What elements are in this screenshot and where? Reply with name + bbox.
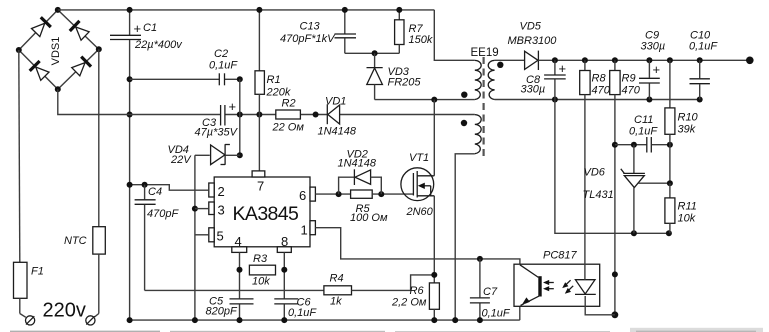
- capacitor C10: [689, 30, 718, 100]
- transformer polarity dot aux: [461, 120, 467, 126]
- svg-text:+: +: [229, 99, 237, 114]
- wire HV top rail: [58, 9, 435, 11]
- capacitor C9: [639, 30, 665, 100]
- transformer EE19 primary winding: [475, 60, 481, 99]
- wire pin7 supply: [258, 115, 260, 172]
- wire primary ground rail: [130, 319, 520, 321]
- svg-text:330µ: 330µ: [641, 41, 666, 53]
- transformer secondary winding: [488, 60, 494, 99]
- node R1/pin7 branch on VCC line: [256, 112, 262, 118]
- resistor R1: [255, 7, 291, 115]
- terminal input left: [26, 316, 35, 325]
- wire pin5: [195, 234, 209, 236]
- svg-text:C4: C4: [148, 186, 162, 198]
- pin 4 of U1: [232, 247, 247, 253]
- svg-text:470pF*1kV: 470pF*1kV: [280, 33, 336, 45]
- wire primary bottom: [375, 99, 475, 101]
- light arrows of PC817: [547, 282, 554, 284]
- svg-text:2N60: 2N60: [406, 206, 434, 218]
- svg-text:7: 7: [257, 179, 264, 194]
- svg-text:F1: F1: [31, 266, 44, 278]
- bridge rectifier VDS1: [16, 7, 102, 92]
- svg-text:0,1uF: 0,1uF: [288, 307, 317, 319]
- wire source to R6: [433, 196, 435, 283]
- wire secondary gnd drop: [555, 100, 669, 234]
- svg-text:EE19: EE19: [471, 47, 499, 59]
- wire R8 to LED anode: [584, 95, 586, 280]
- svg-text:8: 8: [281, 234, 288, 249]
- resistor R9: [610, 60, 641, 96]
- svg-text:22µ*400v: 22µ*400v: [134, 39, 183, 51]
- diode VD3: [367, 50, 422, 99]
- pin 6 of U1: [310, 187, 315, 201]
- svg-text:2: 2: [218, 184, 225, 199]
- diode VD1: [318, 96, 357, 138]
- fuse F1: [14, 50, 44, 317]
- svg-text:VD6: VD6: [584, 167, 606, 179]
- wire VCC line: [130, 114, 221, 116]
- node R2-VD1: [313, 112, 319, 118]
- capacitor C7: [470, 259, 511, 320]
- svg-text:C2: C2: [214, 48, 228, 60]
- wire LED cathode: [585, 296, 615, 315]
- regulator VD6 TL431: [583, 145, 673, 234]
- wire output V+ rail: [538, 59, 749, 61]
- svg-text:+: +: [653, 62, 661, 77]
- resistor R2: [272, 98, 305, 134]
- svg-text:470: 470: [592, 85, 611, 97]
- wire current sense row: [145, 289, 324, 291]
- diode top-left of bridge: [31, 17, 51, 37]
- svg-text:+: +: [559, 61, 567, 76]
- svg-text:R10: R10: [678, 112, 699, 124]
- capacitor C11: [615, 114, 673, 153]
- terminal input right: [86, 316, 95, 325]
- LED of PC817: [575, 280, 595, 294]
- wire output ground: [495, 99, 700, 101]
- svg-text:+: +: [134, 21, 142, 36]
- node C2/VD4 branch on VCC line: [237, 112, 243, 118]
- wire R9 to LED cathode: [614, 95, 616, 315]
- svg-text:22V: 22V: [170, 154, 192, 166]
- svg-text:NTC: NTC: [64, 235, 87, 247]
- transistor VT1 MOSFET: [401, 152, 434, 218]
- svg-text:C13: C13: [300, 21, 321, 33]
- svg-text:R2: R2: [282, 98, 296, 110]
- wire drain: [433, 100, 435, 176]
- diode VD5: [495, 21, 558, 71]
- svg-text:R6: R6: [410, 285, 425, 297]
- svg-text:470pF: 470pF: [147, 208, 179, 220]
- svg-text:VD5: VD5: [520, 21, 542, 33]
- svg-text:150k: 150k: [409, 34, 433, 46]
- wire pin4 to C5: [239, 252, 241, 298]
- svg-text:1k: 1k: [330, 296, 342, 308]
- pin 7 of U1: [252, 171, 265, 177]
- thermistor NTC: [64, 49, 105, 317]
- pin 5 of U1: [209, 228, 214, 242]
- resistor R6: [391, 283, 439, 320]
- optocoupler PC817 box: [514, 250, 600, 307]
- svg-text:6: 6: [299, 188, 306, 203]
- wire pin8 to C6: [283, 252, 285, 298]
- svg-text:C7: C7: [483, 286, 498, 298]
- svg-text:R11: R11: [678, 201, 697, 213]
- pin 2 of U1: [209, 183, 214, 197]
- wire VD4 anode / pin3 gnd vertical: [194, 155, 196, 320]
- transformer polarity dot secondary: [497, 62, 503, 68]
- svg-text:2,2 Ом: 2,2 Ом: [391, 297, 427, 309]
- IC U1 KA3845 body: [209, 171, 316, 253]
- resistor R4: [324, 273, 434, 308]
- wire bridge minus to gnd: [58, 89, 130, 114]
- resistor R8: [580, 60, 611, 96]
- svg-text:10k: 10k: [252, 276, 270, 288]
- wire aux return: [455, 154, 475, 320]
- bottom scan shadow: [10, 331, 160, 332]
- capacitor C6: [274, 297, 317, 321]
- wire pin6 gate drive: [315, 193, 350, 195]
- svg-text:10k: 10k: [678, 213, 696, 225]
- svg-text:0,1uF: 0,1uF: [689, 41, 718, 53]
- svg-text:1N4148: 1N4148: [338, 158, 377, 170]
- svg-text:MBR3100: MBR3100: [508, 35, 558, 47]
- diode top-right of bridge: [70, 21, 90, 41]
- transformer aux winding: [475, 115, 481, 154]
- svg-text:PC817: PC817: [543, 250, 578, 262]
- diode bottom-left of bridge: [30, 61, 50, 81]
- svg-text:220k: 220k: [266, 87, 291, 99]
- capacitor C5: [206, 296, 254, 321]
- wire C1/C2/gnd vertical: [129, 79, 131, 320]
- wire pin2 feedback: [127, 182, 209, 191]
- svg-text:VDS1: VDS1: [50, 37, 62, 66]
- transformer core: [483, 57, 485, 159]
- svg-text:0,1uF: 0,1uF: [209, 60, 238, 72]
- svg-text:220v: 220v: [43, 300, 86, 322]
- svg-text:VT1: VT1: [409, 152, 429, 164]
- resistor R11: [665, 183, 697, 233]
- capacitor C3: [195, 99, 239, 139]
- wire rail drop to transformer: [434, 10, 475, 60]
- svg-text:0,1uF: 0,1uF: [482, 308, 511, 320]
- svg-text:39k: 39k: [678, 124, 696, 136]
- svg-text:820pF: 820pF: [206, 306, 238, 318]
- svg-text:1: 1: [301, 223, 308, 238]
- svg-text:3: 3: [218, 203, 225, 218]
- svg-text:FR205: FR205: [388, 77, 422, 89]
- capacitor C4: [135, 185, 180, 291]
- resistor R5: [350, 190, 413, 224]
- svg-text:C1: C1: [143, 22, 157, 34]
- capacitor C1: [110, 7, 183, 79]
- svg-text:R4: R4: [330, 273, 344, 285]
- svg-text:KA3845: KA3845: [233, 203, 300, 225]
- wire rail riser to opto emitter: [519, 306, 521, 320]
- svg-text:TL431: TL431: [583, 189, 614, 201]
- capacitor C2: [130, 48, 243, 85]
- svg-text:R3: R3: [253, 253, 268, 265]
- svg-text:C11: C11: [634, 114, 653, 126]
- node output terminal: [746, 57, 754, 65]
- svg-text:4: 4: [235, 234, 242, 249]
- pin 8 of U1: [277, 247, 291, 253]
- resistor R3: [249, 253, 275, 288]
- svg-text:R8: R8: [592, 73, 607, 85]
- svg-text:VD1: VD1: [325, 96, 346, 108]
- diode VD4 zener: [168, 144, 240, 166]
- svg-text:1N4148: 1N4148: [318, 126, 357, 138]
- phototransistor of PC817: [520, 265, 539, 278]
- diode bottom-right of bridge: [71, 57, 91, 77]
- svg-text:0,1uF: 0,1uF: [629, 126, 658, 138]
- resistor R7: [395, 7, 433, 53]
- pin 1 of U1: [310, 221, 315, 235]
- svg-text:330µ: 330µ: [521, 84, 546, 96]
- svg-text:R9: R9: [622, 73, 636, 85]
- capacitor C8: [521, 60, 567, 99]
- wire pin1 to optocoupler: [315, 228, 520, 265]
- pin 3 of U1: [209, 202, 214, 215]
- svg-text:470: 470: [622, 85, 641, 97]
- svg-text:22 Ом: 22 Ом: [272, 122, 305, 134]
- svg-text:100 Ом: 100 Ом: [350, 212, 388, 224]
- resistor R10: [665, 60, 699, 183]
- wire pin3: [195, 208, 209, 210]
- svg-text:5: 5: [217, 229, 224, 244]
- svg-text:R1: R1: [267, 74, 281, 86]
- wire C2-VD4 vertical: [239, 79, 241, 155]
- svg-text:47µ*35V: 47µ*35V: [195, 127, 239, 139]
- capacitor C13: [280, 7, 399, 53]
- diode VD2: [338, 149, 382, 195]
- transformer polarity dot primary: [461, 92, 467, 98]
